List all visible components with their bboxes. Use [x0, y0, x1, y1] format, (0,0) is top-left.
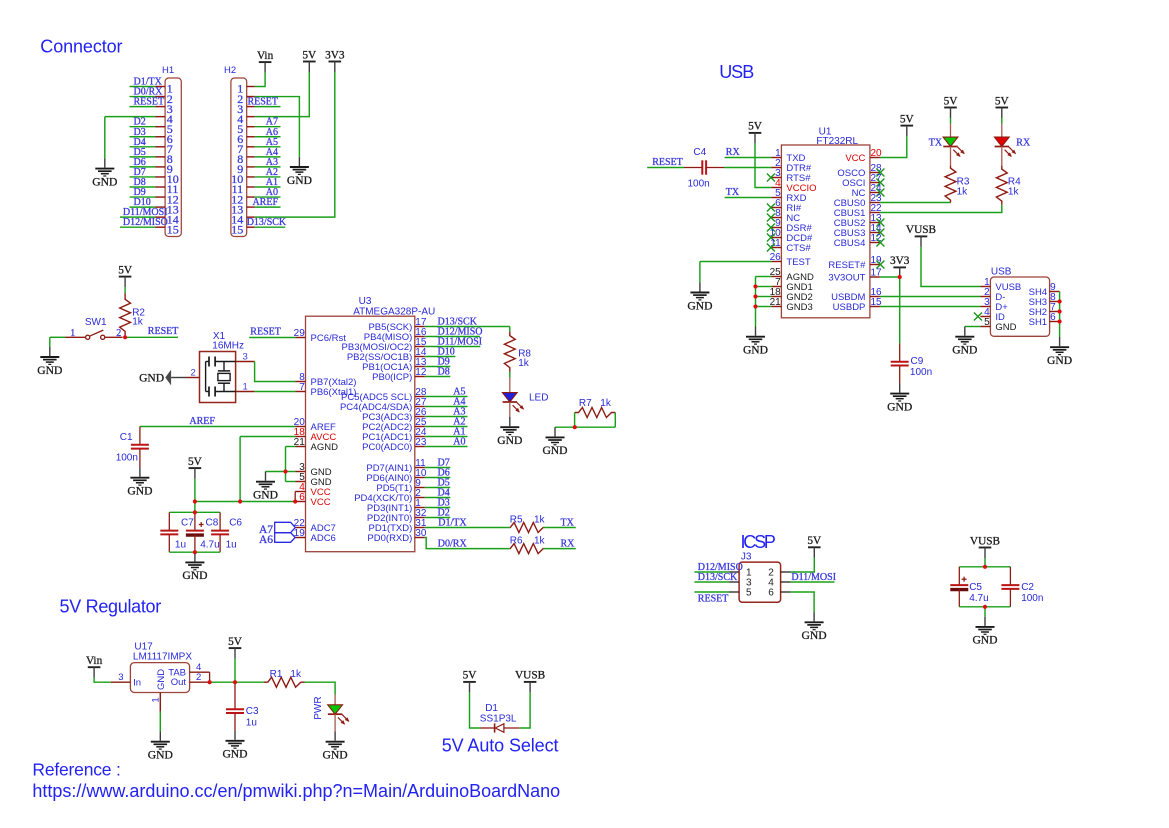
wire caps top bus — [169, 511, 220, 513]
ground under H1 — [104, 158, 106, 167]
wire U3 net A1 — [425, 436, 468, 438]
USB pin 9 SH4 stub — [1050, 291, 1060, 293]
plus sign of C5 — [962, 578, 967, 580]
U3 pin 12 PB0(ICP) stub — [415, 376, 425, 378]
wire H2 pin 1 to Vin — [255, 73, 265, 87]
H1 pin 14 stub — [155, 216, 165, 218]
wire H2 pin 3 net RESET — [255, 106, 281, 108]
svg-text:1k: 1k — [290, 669, 302, 680]
USB pin 1 VUSB stub — [980, 286, 990, 288]
ground under U17 — [159, 732, 161, 741]
svg-text:C7: C7 — [181, 518, 194, 529]
wire USB GND pin 5 — [965, 326, 981, 328]
no-connect U1 pin 12 — [876, 239, 884, 247]
power flag 5V above R2 — [119, 276, 132, 278]
ground under PWR LED — [334, 732, 336, 741]
wire USB shield pins — [1059, 292, 1061, 338]
svg-text:4.7u: 4.7u — [200, 539, 219, 550]
resistor R3 — [945, 166, 956, 203]
svg-text:C6: C6 — [229, 518, 242, 529]
svg-text:TX: TX — [561, 517, 575, 528]
no-connect U1 pin 3 — [767, 174, 775, 182]
U3 pin 17 PB5(SCK) stub — [415, 326, 425, 328]
wire H2 pin 13 net AREF — [255, 206, 281, 208]
svg-text:ATMEGA328P-AU: ATMEGA328P-AU — [353, 307, 435, 318]
svg-text:100n: 100n — [910, 367, 932, 378]
power flag 5V top — [303, 61, 316, 63]
svg-text:1u: 1u — [226, 539, 237, 550]
svg-text:RX: RX — [1016, 138, 1031, 149]
ground under LED — [509, 417, 511, 426]
svg-text:C3: C3 — [246, 706, 259, 717]
svg-text:PWR: PWR — [313, 696, 324, 719]
svg-text:AREF: AREF — [189, 416, 215, 427]
wire D1 to VUSB — [520, 692, 530, 728]
svg-text:100n: 100n — [688, 178, 710, 189]
no-connect U1 pin 13 — [876, 219, 884, 227]
LED TX green — [943, 137, 958, 146]
U17 pin 2 Out stub — [190, 681, 210, 683]
svg-text:GND3: GND3 — [786, 302, 812, 313]
wire U3 net A4 — [425, 406, 468, 408]
U3 pin 28 PC5(ADC5 SCL) stub — [415, 396, 425, 398]
ground at R7 — [554, 427, 556, 436]
svg-text:GND: GND — [743, 344, 768, 357]
wire H1 pin 15 net D12/MISO — [120, 226, 155, 228]
svg-text:H2: H2 — [224, 65, 236, 76]
svg-text:1k: 1k — [534, 535, 546, 546]
junction GND1 — [753, 284, 757, 288]
wire USBDM to USB D- — [880, 296, 981, 298]
H1 pin 4 stub — [155, 116, 165, 118]
junction GND3 — [753, 304, 757, 308]
wire caps bottom bus — [169, 551, 220, 553]
U1 pin 5 RXD stub — [771, 197, 781, 199]
wire VCC pins 4-6 tie — [294, 492, 296, 502]
U3 pin 14 PB2(SS/OC1B) stub — [415, 356, 425, 358]
wire J3 pin 2 to 5V — [791, 558, 815, 572]
USB pin 8 SH3 stub — [1050, 301, 1060, 303]
svg-text:USB: USB — [719, 62, 754, 82]
svg-text:RESET: RESET — [134, 97, 165, 108]
U17 pin 1 stub — [159, 693, 161, 712]
svg-text:GND: GND — [287, 174, 312, 187]
svg-text:GND: GND — [323, 749, 348, 762]
svg-text:PC0(ADC0): PC0(ADC0) — [362, 442, 412, 453]
H1 pin 11 stub — [155, 186, 165, 188]
junction 5V C3 — [233, 680, 237, 684]
svg-text:GND: GND — [148, 749, 173, 762]
wire H1 pin 8 net D5 — [130, 156, 156, 158]
svg-text:4.7u: 4.7u — [969, 593, 988, 604]
J3 pin 3 stub — [729, 581, 739, 583]
svg-text:15: 15 — [231, 222, 243, 236]
wire CBUS1 to R4 — [880, 205, 1002, 213]
junction caps bottom — [193, 550, 197, 554]
svg-text:CTS#: CTS# — [786, 243, 811, 254]
wire J3 pin 4 D11/MOSI — [791, 581, 835, 583]
svg-text:1k: 1k — [132, 317, 144, 328]
wire caps C5 C2 top rail — [959, 566, 1010, 568]
wire U3 net D10 — [425, 356, 456, 358]
global label A7 at U3 pin 22 — [275, 522, 296, 532]
svg-text:Reference :: Reference : — [32, 760, 120, 780]
wire USBDP to USB D+ — [880, 306, 981, 308]
svg-text:Vin: Vin — [257, 50, 274, 62]
ground at J3 — [813, 612, 815, 621]
switch SW1 — [50, 336, 65, 338]
U3 pin 19 ADC6 stub — [296, 537, 306, 539]
svg-text:GND: GND — [182, 569, 207, 582]
U3 pin 2 PD4(XCK/T0) stub — [415, 497, 425, 499]
svg-text:VUSB: VUSB — [906, 224, 936, 236]
wire around R7 — [574, 413, 576, 428]
wire D13 to R8 — [509, 327, 511, 332]
U1 pin 9 DSR# stub — [771, 227, 781, 229]
svg-text:FT232RL: FT232RL — [816, 136, 858, 147]
svg-text:3V3: 3V3 — [325, 49, 345, 61]
global label A6 at U3 pin 19 — [275, 533, 296, 543]
svg-text:5V Regulator: 5V Regulator — [60, 596, 162, 616]
svg-text:GND: GND — [687, 299, 712, 312]
junction C5 bottom — [983, 605, 987, 609]
resistor R7 — [575, 408, 616, 418]
U1 pin 2 DTR# stub — [771, 167, 781, 169]
svg-text:6: 6 — [1050, 312, 1056, 323]
U3 pin 11 PD7(AIN1) stub — [415, 467, 425, 469]
resistor R6 — [510, 544, 544, 554]
wire RESET to C4 — [647, 167, 684, 169]
wire H2 pin 6 net A6 — [255, 136, 281, 138]
plus sign of C8 — [199, 524, 204, 526]
svg-text:RESET#: RESET# — [828, 260, 866, 271]
H1 pin 10 stub — [155, 176, 165, 178]
svg-text:AGND: AGND — [311, 442, 339, 453]
U1 pin 18 GND2 stub — [771, 296, 781, 298]
U17 pin 4 TAB stub — [190, 671, 210, 673]
junction R7 — [573, 425, 577, 429]
wire H1 pin 9 net D6 — [130, 166, 156, 168]
junction SH1 — [1058, 319, 1062, 323]
wire H1 pin 13 net D10 — [130, 206, 156, 208]
svg-text:Vin: Vin — [86, 655, 103, 667]
H2 pin 10 stub — [247, 176, 255, 178]
U1 pin 21 GND3 stub — [771, 306, 781, 308]
wire R1 to PWR LED — [305, 682, 336, 694]
wire H2 pin 2 to GND — [255, 97, 300, 157]
H2 pin 5 stub — [247, 126, 255, 128]
svg-text:SW1: SW1 — [85, 317, 107, 328]
wire U3 net A5 — [425, 396, 468, 398]
IC U1 FT232RL body — [781, 145, 870, 318]
wire U3 net D13/SCK — [425, 326, 510, 328]
wire U3 net D6 — [425, 477, 451, 479]
svg-text:D0/RX: D0/RX — [438, 538, 468, 549]
ground under caps — [194, 552, 196, 561]
U3 pin 15 PB3(MOSI/OC2) stub — [415, 346, 425, 348]
junction SH2 — [1058, 309, 1062, 313]
wire U1 VCC to 5V — [880, 136, 907, 157]
U1 pin 11 CTS# stub — [771, 247, 781, 249]
wire H1 pin 4 to GND — [105, 116, 155, 118]
U3 pin 3 GND stub — [296, 471, 306, 473]
H2 pin 4 stub — [247, 116, 255, 118]
ground under C3 — [234, 731, 236, 740]
U1 pin 12 CBUS4 stub — [870, 242, 880, 244]
U3 pin 1 PD3(INT1) stub — [415, 507, 425, 509]
IC U3 ATMEGA328P-AU body — [306, 316, 415, 552]
svg-text:GND: GND — [253, 489, 278, 502]
junction 3V3OUT — [898, 275, 902, 279]
svg-text:R7: R7 — [579, 398, 592, 409]
wire H1 pin 12 net D9 — [130, 196, 156, 198]
USB pin 7 SH2 stub — [1050, 311, 1060, 313]
U3 pin 22 ADC7 stub — [296, 527, 306, 529]
wire 5V flag down to rail — [194, 479, 196, 513]
wire 3V3OUT — [880, 276, 900, 278]
U3 pin 16 PB4(MISO) stub — [415, 336, 425, 338]
power flag VUSB at C5 — [979, 547, 992, 549]
crystal X1 body — [200, 352, 236, 403]
svg-text:GND: GND — [952, 344, 977, 357]
wire J3 pin 1 D12/MISO — [694, 571, 729, 573]
power flag 5V at U1 VCC — [901, 125, 914, 127]
LED D13 blue — [502, 393, 517, 402]
svg-text:1k: 1k — [518, 358, 530, 369]
svg-text:RESET: RESET — [247, 97, 278, 108]
junction at VCC pin — [293, 499, 297, 503]
wire H2 pin 5 net A7 — [255, 126, 281, 128]
svg-text:1k: 1k — [534, 514, 546, 525]
U3 pin 21 AGND stub — [296, 446, 306, 448]
svg-text:GND: GND — [887, 400, 912, 413]
wire RX to U1 pin 1 — [725, 157, 772, 159]
U1 pin 22 CBUS1 stub — [870, 212, 880, 214]
U1 pin 15 USBDP stub — [870, 306, 880, 308]
no-connect U1 pin 11 — [767, 244, 775, 252]
wire R5 to TX — [544, 527, 576, 529]
resistor R2 — [120, 293, 131, 337]
wire J3 pin 6 to GND — [791, 592, 815, 612]
wire X1 pin 3 to U3 pin 8 — [255, 362, 296, 382]
svg-text:GND: GND — [156, 669, 167, 690]
svg-text:5V: 5V — [807, 535, 822, 547]
wire U3 net D4 — [425, 497, 451, 499]
junction AGND — [283, 469, 287, 473]
wire 3V3OUT down to C9 — [899, 277, 901, 343]
svg-text:RESET: RESET — [652, 157, 683, 168]
U3 pin 10 PD6(AIN0) stub — [415, 477, 425, 479]
svg-text:GND: GND — [92, 175, 117, 188]
svg-text:2: 2 — [191, 367, 196, 378]
wire AGND GND pins — [286, 446, 296, 448]
diode D1 — [494, 723, 496, 732]
svg-text:GND: GND — [127, 485, 152, 498]
H1 pin 3 stub — [155, 106, 165, 108]
H2 pin 9 stub — [247, 166, 255, 168]
svg-text:C5: C5 — [969, 582, 982, 593]
svg-text:D8: D8 — [438, 366, 450, 377]
H1 pin 9 stub — [155, 166, 165, 168]
svg-text:ICSP: ICSP — [741, 532, 776, 552]
power flag 5V at J3 — [808, 546, 821, 548]
U1 pin 23 CBUS0 stub — [870, 202, 880, 204]
wire TEST to GND — [700, 261, 772, 263]
U3 pin 20 AREF stub — [296, 426, 306, 428]
ground at USB shield — [1059, 337, 1061, 346]
U3 pin 13 PB1(OC1A) stub — [415, 366, 425, 368]
H2 pin 13 stub — [247, 206, 255, 208]
U1 pin 6 RI# stub — [771, 207, 781, 209]
USB pin 3 D+ stub — [980, 306, 990, 308]
wire U3 pin 31 D1/TX — [425, 527, 510, 529]
U17 pin 3 stub — [111, 681, 131, 683]
resistor R1 — [264, 677, 305, 687]
svg-text:D1: D1 — [485, 703, 498, 714]
svg-text:C8: C8 — [206, 518, 219, 529]
wire X1 pin 1 to U3 pin 7 — [255, 391, 296, 393]
U1 pin 17 3V3OUT stub — [870, 276, 880, 278]
H2 pin 8 stub — [247, 156, 255, 158]
capacitor C3 — [234, 682, 236, 709]
wire VUSB to caps — [984, 558, 986, 567]
wire U17 out to R1 — [210, 681, 264, 683]
svg-text:3: 3 — [118, 672, 123, 683]
svg-text:J3: J3 — [741, 552, 752, 563]
wire H2 pin 9 net A3 — [255, 166, 281, 168]
wire Vin to U17 In — [94, 678, 111, 683]
svg-text:SS1P3L: SS1P3L — [480, 714, 517, 725]
svg-text:AREF: AREF — [252, 197, 278, 208]
U3 pin 18 AVCC stub — [296, 436, 306, 438]
capacitor C8 polarized — [194, 512, 196, 530]
U1 pin 19 RESET# stub — [870, 264, 880, 266]
U1 pin 27 OSCI stub — [870, 182, 880, 184]
svg-text:PB0(ICP): PB0(ICP) — [372, 372, 412, 383]
svg-text:VUSB: VUSB — [970, 535, 1000, 547]
junction SW1-R2-RESET — [123, 335, 127, 339]
junction SH3 — [1058, 299, 1062, 303]
ground arrow at X1 pin 2 — [165, 370, 171, 386]
X1 pin 2 stub — [171, 377, 186, 379]
power flag 5V at RX LED — [996, 107, 1009, 109]
USB pin 2 D- stub — [980, 296, 990, 298]
PWR LED cathode lead — [334, 714, 336, 731]
svg-text:6: 6 — [299, 492, 305, 503]
svg-text:5V: 5V — [463, 670, 478, 682]
U3 pin 29 PC6/Rst stub — [296, 337, 306, 339]
connector USB body — [990, 277, 1049, 336]
wire 5V to VCCIO — [755, 143, 771, 187]
ground under SW1 — [49, 347, 51, 356]
svg-text:C4: C4 — [693, 147, 706, 158]
U3 pin 27 PC4(ADC4/SDA) stub — [415, 406, 425, 408]
svg-text:VCC: VCC — [845, 153, 865, 164]
H1 pin 8 stub — [155, 156, 165, 158]
junction C5 top — [983, 565, 987, 569]
power flag 5V at VCCIO — [749, 132, 762, 134]
U1 pin 28 OSCO stub — [870, 172, 880, 174]
no-connect U1 pin 8 — [767, 214, 775, 222]
U1 pin 4 VCCIO stub — [771, 187, 781, 189]
svg-text:C2: C2 — [1021, 582, 1034, 593]
resistor R8 — [504, 332, 515, 372]
svg-text:USB: USB — [991, 267, 1012, 278]
H2 pin 2 stub — [247, 96, 255, 98]
U1 pin 25 AGND stub — [771, 276, 781, 278]
U3 pin 30 PD0(RXD) stub — [415, 537, 425, 539]
wire U3 net A3 — [425, 416, 468, 418]
svg-text:5V: 5V — [944, 95, 959, 107]
wire R6 to RX — [544, 548, 576, 550]
resistor R4 — [996, 166, 1007, 205]
wire H1 pin 5 net D2 — [130, 126, 156, 128]
no-connect U1 pin 27 — [876, 179, 884, 187]
U1 pin 1 TXD stub — [771, 157, 781, 159]
power flag 5V at regulator out — [229, 647, 242, 649]
J3 pin 1 stub — [729, 571, 739, 573]
capacitor C1 — [139, 427, 141, 445]
junction U17 out — [208, 680, 212, 684]
U3 pin 24 PC1(ADC1) stub — [415, 436, 425, 438]
svg-text:TX: TX — [929, 138, 943, 149]
power flag 3V3 — [329, 61, 342, 63]
junction 5V rail — [193, 499, 197, 503]
wire H1 pin 10 net D7 — [130, 176, 156, 178]
svg-text:VCC: VCC — [311, 497, 331, 508]
svg-text:3V3: 3V3 — [890, 255, 910, 267]
svg-text:C1: C1 — [120, 432, 133, 443]
U3 pin 9 PD5(T1) stub — [415, 487, 425, 489]
wire 5V to RX LED — [1001, 118, 1003, 124]
wire U17 pin 1 to GND — [159, 712, 161, 732]
U3 pin 23 PC0(ADC0) stub — [415, 446, 425, 448]
power flag Vin — [259, 61, 272, 63]
svg-text:6: 6 — [768, 588, 774, 599]
svg-text:PD0(RXD): PD0(RXD) — [367, 533, 412, 544]
svg-text:15: 15 — [167, 222, 179, 236]
svg-text:RX: RX — [561, 538, 576, 549]
svg-text:GND: GND — [497, 434, 522, 447]
svg-text:3V3OUT: 3V3OUT — [828, 272, 865, 283]
U1 pin 7 GND1 stub — [771, 286, 781, 288]
wire U3 net D7 — [425, 467, 451, 469]
no-connect U1 pin 6 — [767, 204, 775, 212]
svg-text:RX: RX — [726, 147, 741, 158]
svg-text:1k: 1k — [957, 186, 969, 197]
wire 5V to D1 — [470, 692, 481, 728]
LED PWR green — [328, 705, 343, 714]
J3 pin 6 stub — [781, 591, 791, 593]
H2 pin 3 stub — [247, 106, 255, 108]
diode D1 anode lead — [481, 727, 495, 729]
H2 pin 6 stub — [247, 136, 255, 138]
wire RESET to U3 pin 29 — [249, 337, 295, 339]
U1 pin 10 DCD# stub — [771, 237, 781, 239]
H2 pin 14 stub — [247, 216, 255, 218]
svg-text:R6: R6 — [510, 535, 523, 546]
junction GND2 — [753, 294, 757, 298]
H1 pin 7 stub — [155, 146, 165, 148]
svg-text:5: 5 — [984, 317, 990, 328]
junction caps top — [193, 510, 197, 514]
U1 pin 20 VCC stub — [870, 157, 880, 159]
H2 pin 12 stub — [247, 196, 255, 198]
wire H1 pin 11 net D8 — [130, 186, 156, 188]
svg-text:5V Auto Select: 5V Auto Select — [442, 735, 559, 755]
wire C4 to U1 pin 2 — [724, 167, 771, 169]
U1 pin 16 USBDM stub — [870, 296, 880, 298]
